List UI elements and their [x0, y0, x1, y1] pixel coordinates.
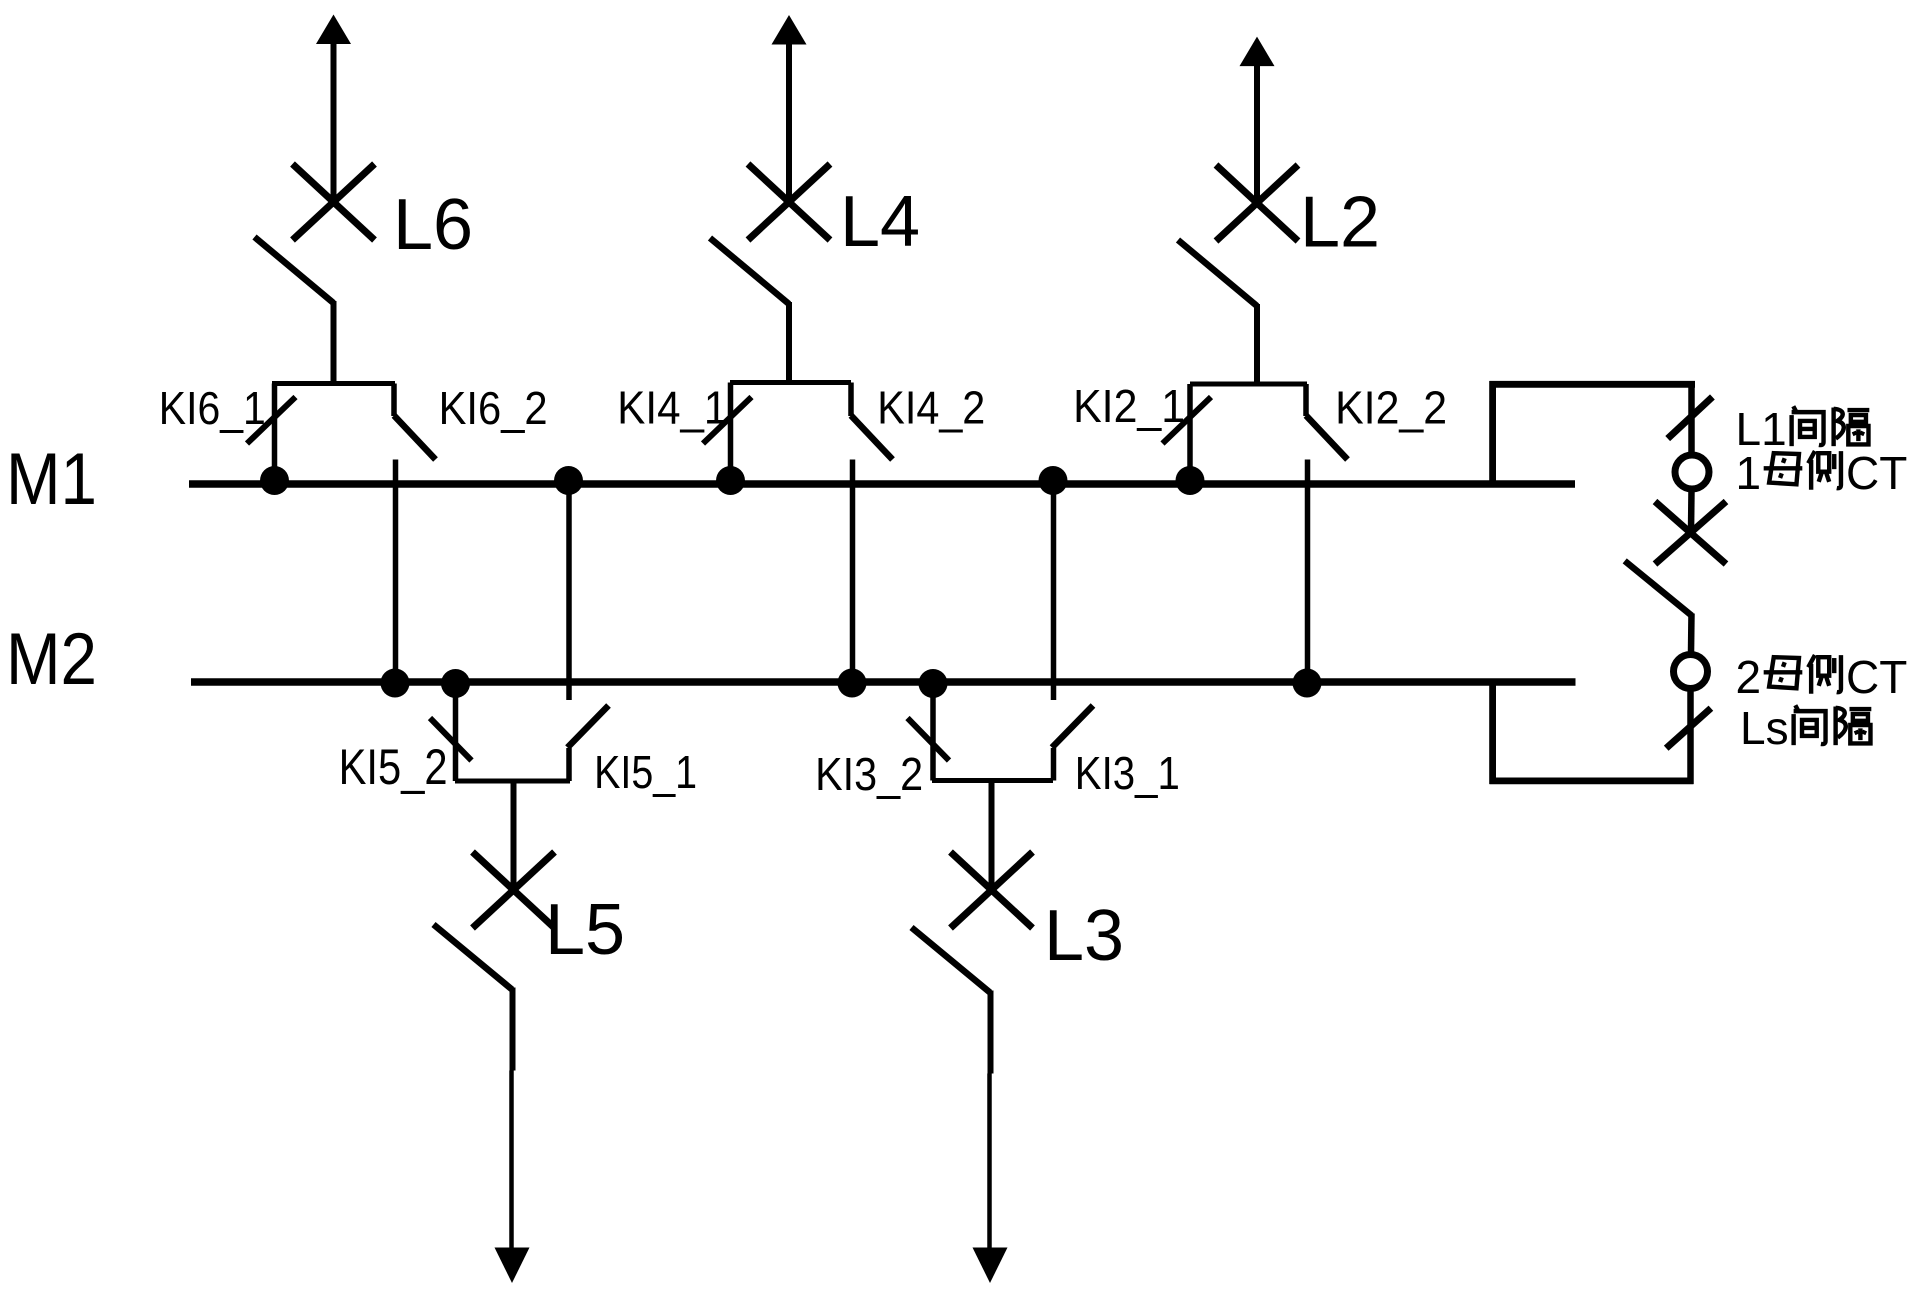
junction dot KI6_2 on M2: [381, 669, 410, 698]
wire CT2 to bottom horizontal: [1687, 690, 1694, 785]
line disconnector of L3 (open blade): [912, 928, 991, 993]
disconnector Ls bay (closed slash): [1666, 708, 1711, 748]
svg-text:KI5_2: KI5_2: [339, 739, 448, 795]
circuit breaker L3 (X symbol): [951, 852, 1033, 928]
junction dot KI4_2 on M2: [838, 669, 867, 698]
wire KI4_2 stub crossing M1 down to M2: [850, 460, 856, 683]
junction dot KI2_2 on M2: [1293, 669, 1322, 698]
svg-text:KI6_2: KI6_2: [439, 382, 548, 434]
svg-text:L4: L4: [840, 182, 920, 262]
feeder L6 outgoing arrow: [316, 15, 351, 203]
svg-text:KI4_1: KI4_1: [617, 382, 727, 434]
disconnector KI6_1 (closed, to M1): [247, 384, 296, 485]
wire bus-tie right drop to L1 disconnector: [1688, 381, 1695, 454]
disconnector L1 bay (closed slash): [1668, 397, 1713, 439]
disconnector KI4_2 (open, to M2): [851, 383, 893, 460]
svg-text:1: 1: [1736, 447, 1762, 499]
wire L4 T-bar: [730, 380, 851, 385]
disconnector bus-tie (open blade): [1625, 561, 1692, 616]
disconnector KI4_1 (closed, to M1): [703, 383, 752, 485]
label Ls bay (Ls jiange): [1740, 702, 1871, 754]
line disconnector of L6 (open blade): [255, 237, 334, 303]
svg-text:L2: L2: [1300, 183, 1380, 263]
label L1 bay (L1 jiange): [1736, 403, 1870, 455]
svg-text:Ls: Ls: [1740, 702, 1789, 754]
circuit breaker L6 (X symbol): [293, 164, 375, 240]
line disconnector of L5 (open blade): [434, 925, 513, 990]
wire KI6_2 stub crossing M1 down to M2: [393, 460, 399, 683]
svg-text:L3: L3: [1044, 896, 1124, 976]
svg-text:KI4_2: KI4_2: [877, 382, 985, 434]
junction dot KI6_1 on M1: [260, 466, 289, 495]
svg-text:KI2_1: KI2_1: [1073, 380, 1185, 432]
svg-text:KI3_1: KI3_1: [1075, 747, 1180, 799]
disconnector KI3_1 (open, to M1): [1052, 706, 1093, 781]
svg-text:L5: L5: [545, 890, 625, 970]
disconnector KI2_1 (closed, to M1): [1163, 384, 1212, 484]
wire L4 stem to T-bar: [786, 302, 792, 383]
disconnector KI3_2 (closed, to M2): [908, 682, 950, 781]
svg-text:KI3_2: KI3_2: [815, 748, 923, 800]
wire bus-tie bottom horizontal: [1490, 778, 1694, 785]
CT 1 (bus 1 side current transformer circle): [1675, 455, 1709, 489]
wire KI2_2 stub crossing M1 down to M2: [1305, 460, 1311, 683]
disconnector KI6_2 (open, to M2): [394, 384, 436, 460]
wire bus-tie top horizontal: [1490, 381, 1696, 388]
svg-text:L6: L6: [393, 185, 473, 265]
circuit breaker L4 (X symbol): [748, 164, 830, 240]
disconnector KI5_1 (open, to M1): [568, 706, 609, 782]
circuit breaker L2 (X symbol): [1216, 165, 1298, 241]
svg-text:M2: M2: [6, 619, 97, 700]
junction dot KI4_1 on M1: [716, 466, 745, 495]
wire L3 T-bar to breaker: [989, 781, 995, 891]
line disconnector of L2 (open blade): [1178, 240, 1257, 306]
disconnector KI2_2 (open, to M2): [1306, 384, 1348, 460]
svg-text:KI6_1: KI6_1: [159, 382, 266, 434]
wire bus-tie left riser from M2: [1489, 682, 1496, 784]
svg-text:KI2_2: KI2_2: [1335, 382, 1447, 434]
wire L3 T-bar: [932, 778, 1053, 783]
wire bus-tie left riser from M1: [1489, 381, 1496, 484]
svg-text:M1: M1: [6, 439, 97, 520]
wire L5 T-bar: [455, 779, 570, 784]
feeder L3 outgoing arrow: [973, 991, 1008, 1284]
busbar M1: [189, 480, 1575, 488]
label bus-1-side CT (1 muce CT): [1736, 447, 1908, 499]
feeder L5 outgoing arrow: [495, 988, 530, 1284]
circuit breaker bus-tie (X symbol): [1655, 502, 1726, 565]
wire KI5_1 fixed stub from M1 crossing M2: [566, 484, 572, 700]
CT 2 (bus 2 side current transformer circle): [1674, 655, 1708, 689]
junction dot KI3_2 on M2: [919, 669, 948, 698]
wire L6 stem to T-bar: [331, 301, 337, 384]
junction dot KI5_2 on M2: [441, 669, 470, 698]
disconnector KI5_2 (closed, to M2): [430, 682, 472, 781]
junction dot KI5_1 on M1: [554, 466, 583, 495]
wire L2 T-bar: [1190, 382, 1307, 387]
wire L6 T-bar: [272, 381, 395, 386]
wire blade to CT2: [1688, 614, 1695, 654]
wire L5 T-bar to breaker: [511, 781, 517, 890]
svg-text:CT: CT: [1846, 651, 1907, 703]
wire KI3_1 fixed stub from M1 crossing M2: [1051, 484, 1057, 700]
busbar M2: [191, 678, 1576, 686]
feeder L4 outgoing arrow: [772, 15, 807, 202]
svg-text:KI5_1: KI5_1: [594, 746, 697, 798]
svg-text:CT: CT: [1846, 447, 1907, 499]
junction dot KI3_1 on M1: [1039, 466, 1068, 495]
wire L2 stem to T-bar: [1254, 304, 1260, 384]
label bus-2-side CT (2 muce CT): [1736, 651, 1908, 703]
circuit breaker L5 (X symbol): [473, 852, 555, 928]
line disconnector of L4 (open blade): [710, 238, 789, 304]
wire CT1 to breaker: [1688, 490, 1695, 532]
svg-text:2: 2: [1736, 651, 1762, 703]
junction dot KI2_1 on M1: [1176, 466, 1205, 495]
feeder L2 outgoing arrow: [1240, 37, 1275, 203]
